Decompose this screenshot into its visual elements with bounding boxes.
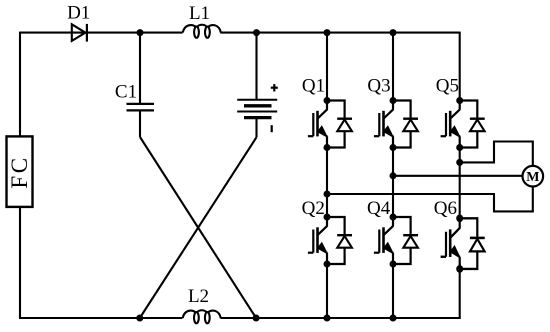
wire left bus upper (FC top lead) bbox=[19, 32, 21, 137]
node phase C tap bbox=[456, 159, 463, 166]
node junction bottom C1 diagonal bbox=[253, 315, 260, 322]
battery B1 bbox=[237, 100, 277, 118]
svg-text:C1: C1 bbox=[115, 82, 137, 103]
node junction top battery bbox=[253, 29, 260, 36]
svg-text:L2: L2 bbox=[188, 286, 209, 307]
wire leg B upper (bus to Q3) bbox=[392, 33, 394, 101]
transistor Q4 bbox=[374, 214, 397, 268]
wire bottom bus right of L2 bbox=[220, 317, 459, 319]
wire leg A lower (Q2 to bottom bus) bbox=[326, 264, 328, 318]
svg-text:Q5: Q5 bbox=[436, 76, 459, 97]
wire phase B to motor bbox=[393, 175, 524, 177]
wire leg C lower (Q6 to bottom bus) bbox=[459, 264, 461, 319]
freewheel diode of Q1 bbox=[327, 101, 352, 148]
node junction bottom leg A bbox=[324, 315, 331, 322]
transistor Q5 bbox=[441, 97, 464, 151]
wire C1 top lead bbox=[139, 33, 141, 105]
wire C1 diagonal to bottom bus bbox=[140, 137, 256, 318]
freewheel diode of Q4 bbox=[393, 217, 418, 264]
wire leg A upper (bus to Q1) bbox=[326, 33, 328, 101]
node junction top leg A bbox=[324, 29, 331, 36]
node phase B tap bbox=[390, 172, 397, 179]
node junction top leg B bbox=[390, 29, 397, 36]
freewheel diode of Q6 bbox=[460, 218, 485, 269]
node junction top C1 bbox=[137, 29, 144, 36]
node phase A tap bbox=[324, 191, 331, 198]
wire bottom bus left of L2 bbox=[19, 317, 183, 319]
transistor Q2 bbox=[308, 214, 331, 268]
wire leg B lower (Q4 to bottom bus) bbox=[392, 264, 394, 318]
transistor Q6 bbox=[441, 215, 464, 273]
wire leg C middle (Q5 to Q6 through phase tap) bbox=[459, 148, 461, 218]
wire battery bottom lead bbox=[255, 119, 257, 138]
wire top bus left (through D1 position) bbox=[20, 32, 183, 34]
svg-text:L1: L1 bbox=[189, 3, 210, 24]
wire battery diagonal to bottom bus bbox=[140, 137, 257, 318]
wire left bus lower (FC bottom lead) bbox=[19, 207, 21, 319]
node junction bottom battery diagonal bbox=[136, 315, 143, 322]
svg-text:Q4: Q4 bbox=[367, 198, 391, 219]
capacitor C1 bbox=[127, 104, 155, 111]
motor M bbox=[523, 166, 544, 187]
freewheel diode of Q2 bbox=[327, 217, 352, 264]
battery minus sign bbox=[271, 125, 273, 132]
diode D1 bbox=[72, 24, 87, 42]
svg-text:Q6: Q6 bbox=[434, 198, 457, 219]
wire leg B middle (Q3 to Q4 through phase tap) bbox=[392, 148, 394, 218]
transistor Q1 bbox=[308, 97, 331, 151]
wire C1 bottom lead bbox=[139, 111, 141, 137]
inductor L1 bbox=[183, 25, 221, 38]
svg-text:FC: FC bbox=[7, 155, 32, 188]
wire battery top lead bbox=[255, 33, 257, 100]
inductor L2 bbox=[183, 310, 221, 323]
wire leg A middle (Q1 to Q2 through phase tap) bbox=[326, 148, 328, 218]
svg-text:Q2: Q2 bbox=[302, 198, 325, 219]
battery plus sign bbox=[271, 84, 278, 91]
fuel cell FC bbox=[7, 136, 33, 207]
wire phase C to motor bbox=[460, 142, 533, 167]
freewheel diode of Q5 bbox=[460, 101, 485, 148]
freewheel diode of Q3 bbox=[393, 101, 418, 148]
svg-text:D1: D1 bbox=[67, 3, 90, 24]
wire top bus right of L1 bbox=[220, 32, 459, 34]
svg-text:M: M bbox=[526, 170, 539, 185]
node junction bottom leg B bbox=[390, 315, 397, 322]
wire leg C upper (bus corner to Q5) bbox=[459, 32, 461, 101]
wire phase A to motor bbox=[327, 187, 533, 212]
transistor Q3 bbox=[374, 97, 397, 151]
svg-text:Q1: Q1 bbox=[302, 76, 325, 97]
svg-text:Q3: Q3 bbox=[367, 76, 390, 97]
